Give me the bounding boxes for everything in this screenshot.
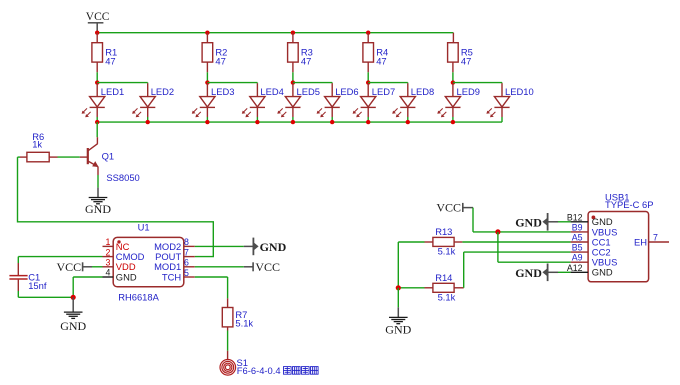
svg-text:GND: GND [385, 322, 411, 336]
pin A12 GND [567, 263, 613, 278]
wire VCC to VBUS rail [473, 208, 571, 232]
svg-text:4: 4 [106, 268, 111, 278]
node R3 / LED row junction [291, 80, 295, 84]
node LED7 cathode junction [366, 120, 370, 124]
svg-text:47: 47 [105, 55, 115, 66]
svg-text:47: 47 [215, 55, 225, 66]
node R4 / LED row junction [366, 80, 370, 84]
ground flag (USB A12) [542, 264, 558, 282]
ground flag (USB B12) [542, 213, 558, 231]
wire Q1 emitter to ground [97, 167, 99, 198]
svg-text:LED4: LED4 [260, 86, 283, 97]
svg-text:LED1: LED1 [101, 86, 124, 97]
svg-text:GND: GND [515, 266, 542, 280]
node VCC rail junction 2 [205, 31, 209, 35]
svg-text:6: 6 [184, 258, 189, 268]
svg-text:GND: GND [260, 240, 287, 254]
wire R2 top lead [206, 33, 208, 43]
LED LED8 [392, 83, 434, 122]
pin 4 GND [103, 268, 137, 283]
pin A9 VBUS [571, 253, 618, 268]
wire A12 to flag [558, 271, 571, 273]
node LED6 cathode junction [330, 120, 334, 124]
wire VCC rail [97, 32, 453, 34]
svg-text:A5: A5 [572, 233, 583, 243]
LED LED9 [437, 83, 480, 122]
wire R13 right to A5 [454, 241, 570, 243]
node R1 / LED row junction [95, 80, 99, 84]
wire R5 top drop [452, 33, 454, 43]
resistor R5 47 [448, 43, 473, 67]
node R13/R14 junction [396, 285, 401, 290]
svg-text:VCC: VCC [57, 260, 82, 274]
LED LED10 [486, 83, 533, 122]
svg-text:15nf: 15nf [28, 280, 47, 291]
wire R3 bottom lead [292, 62, 294, 72]
node LED5 cathode junction [291, 120, 295, 124]
svg-text:Q1: Q1 [102, 151, 115, 162]
svg-text:U1: U1 [138, 222, 150, 233]
value label F6-6-4-0.4 touch spring [237, 365, 318, 376]
ground symbol (USB divider) [389, 317, 408, 323]
capacitor C1 15nf [9, 263, 46, 291]
node VCC rail junction 4 [366, 31, 370, 35]
pin 3 VDD [103, 258, 136, 273]
wire R13 left [398, 242, 433, 288]
touch pad S1 F6-6-4-0.4 [220, 357, 248, 375]
svg-text:1k: 1k [32, 139, 42, 150]
power flag VCC (U1 pin3) [57, 260, 93, 274]
power flag VCC (USB) [436, 200, 473, 214]
wire R4 top lead [367, 33, 369, 43]
power flag VCC (U1 pin6) [244, 262, 253, 271]
node USB1 pin1 marker dot [592, 216, 596, 220]
wire LED pair link 1 [97, 82, 148, 84]
resistor R1 47 [92, 43, 117, 67]
node ground junction (C1) [71, 295, 76, 300]
svg-text:R13: R13 [435, 226, 452, 237]
svg-text:EH: EH [634, 236, 647, 247]
svg-text:TCH: TCH [162, 271, 181, 282]
wire C1 bottom to ground junction [18, 291, 73, 297]
svg-text:B9: B9 [572, 222, 583, 232]
wire POUT feedback path [18, 157, 214, 257]
wire R6 left lead [18, 156, 27, 158]
resistor R14 5.1k [433, 272, 456, 302]
wire R5 bottom lead [452, 62, 454, 72]
wire VCC to VDD pin [92, 266, 103, 268]
svg-text:1: 1 [106, 237, 111, 247]
wire LED cathode rail [97, 121, 502, 123]
svg-text:VCC: VCC [86, 11, 110, 23]
svg-text:7: 7 [653, 233, 658, 243]
power flag VCC (top) [86, 11, 110, 33]
pin B5 CC2 [571, 243, 611, 258]
svg-text:47: 47 [301, 55, 311, 66]
svg-text:LED5: LED5 [297, 86, 320, 97]
ground flag (U1 pin8) [244, 238, 259, 256]
svg-text:VCC: VCC [255, 260, 280, 274]
svg-text:B5: B5 [572, 243, 583, 253]
svg-text:F6-6-4-0.4: F6-6-4-0.4 [237, 365, 281, 376]
svg-text:5: 5 [184, 268, 189, 278]
svg-text:7: 7 [184, 247, 189, 257]
node LED4 cathode junction [255, 120, 259, 124]
pin A5 CC1 [571, 233, 611, 248]
svg-text:B12: B12 [567, 212, 583, 222]
svg-text:LED2: LED2 [151, 86, 174, 97]
wire R14 left [398, 287, 433, 289]
svg-text:A9: A9 [572, 253, 583, 263]
pin 7 EH [634, 233, 669, 248]
svg-text:LED7: LED7 [372, 86, 395, 97]
svg-text:GND: GND [116, 271, 137, 282]
wire R14 right to B5 [454, 252, 570, 288]
resistor R7 5.1k [222, 308, 253, 329]
svg-text:LED6: LED6 [335, 86, 358, 97]
svg-text:A12: A12 [567, 263, 583, 273]
wire R7 to S1 [227, 327, 229, 360]
svg-text:5.1k: 5.1k [235, 317, 253, 328]
node U1 pin1 marker dot [117, 240, 120, 243]
resistor R6 1k [27, 131, 49, 162]
resistor R4 47 [363, 43, 388, 67]
node LED1 cathode junction [95, 120, 99, 124]
wire LED pair link 3 [293, 82, 332, 84]
wire R4 bottom lead [367, 62, 369, 72]
wire LED pair link 4 [368, 82, 408, 84]
pin 1 NC [103, 237, 130, 252]
pin B12 GND [567, 212, 613, 227]
svg-text:LED9: LED9 [457, 86, 480, 97]
svg-text:GND: GND [515, 216, 542, 230]
node R2 / LED row junction [205, 80, 209, 84]
node VCC rail junction 3 [291, 31, 295, 35]
LED LED5 [277, 83, 320, 122]
svg-text:2: 2 [106, 247, 111, 257]
LED LED3 [192, 83, 235, 122]
svg-text:8: 8 [184, 237, 189, 247]
LED LED2 [132, 83, 174, 122]
node LED3 cathode junction [205, 120, 209, 124]
node LED2 cathode junction [146, 120, 150, 124]
pin 8 MOD2 [154, 237, 195, 252]
wire B12 to flag [558, 221, 571, 223]
pin 2 CMOD [103, 247, 145, 262]
LED LED4 [242, 83, 284, 122]
svg-text:47: 47 [376, 55, 386, 66]
resistor R3 47 [288, 43, 313, 67]
wire Q1 collector [96, 122, 98, 144]
svg-text:GND: GND [85, 202, 111, 216]
svg-text:SS8050: SS8050 [106, 172, 139, 183]
pin 5 TCH [162, 268, 195, 283]
wire LED pair link 5 [453, 82, 502, 84]
node R5 / LED row junction [451, 80, 455, 84]
pin B9 VBUS [571, 222, 618, 237]
pin 6 MOD1 [154, 258, 195, 273]
svg-text:RH6618A: RH6618A [118, 292, 159, 303]
resistor R2 47 [202, 43, 227, 67]
svg-text:TYPE-C 6P: TYPE-C 6P [605, 199, 653, 210]
wire R1 top lead [96, 33, 98, 43]
ground symbol below Q1 [89, 198, 108, 204]
node LED8 cathode junction [406, 120, 410, 124]
svg-text:VCC: VCC [436, 200, 461, 214]
svg-text:5.1k: 5.1k [438, 246, 456, 257]
resistor R13 5.1k [433, 226, 456, 256]
LED LED1 [82, 83, 125, 122]
wire junction to ground [397, 288, 399, 318]
wire CMOD to C1 [18, 257, 102, 263]
wire R2 bottom lead [206, 62, 208, 72]
svg-text:R14: R14 [435, 272, 452, 283]
wire MOD1 to VCC flag [195, 266, 244, 268]
wire LED pair link 2 [207, 82, 257, 84]
op-amp U1 RH6618A body [113, 222, 184, 303]
wire TCH to R7 [195, 277, 228, 308]
wire R3 top lead [292, 33, 294, 43]
svg-text:5.1k: 5.1k [438, 292, 456, 303]
transistor Q1 SS8050 [88, 144, 140, 183]
LED LED7 [353, 83, 396, 122]
wire VBUS junction to A9 [498, 232, 571, 262]
connector USB1 TYPE-C 6P body [588, 191, 653, 281]
ground symbol below C1 [72, 297, 74, 312]
wire GND pin down [73, 277, 102, 297]
node VCC rail junction 1 [95, 31, 99, 35]
wire base lead [49, 156, 87, 158]
svg-text:47: 47 [461, 55, 471, 66]
svg-text:LED8: LED8 [411, 86, 434, 97]
svg-text:3: 3 [106, 258, 111, 268]
LED LED6 [317, 83, 359, 122]
svg-text:LED10: LED10 [505, 86, 534, 97]
svg-text:LED3: LED3 [211, 86, 234, 97]
node VBUS junction [495, 229, 500, 234]
svg-text:GND: GND [60, 319, 86, 333]
node LED9 cathode junction [451, 120, 455, 124]
wire R1 bottom lead [96, 62, 98, 72]
svg-text:GND: GND [592, 267, 613, 278]
pin 7 POUT [155, 247, 195, 262]
wire MOD2 to GND flag [195, 245, 244, 247]
